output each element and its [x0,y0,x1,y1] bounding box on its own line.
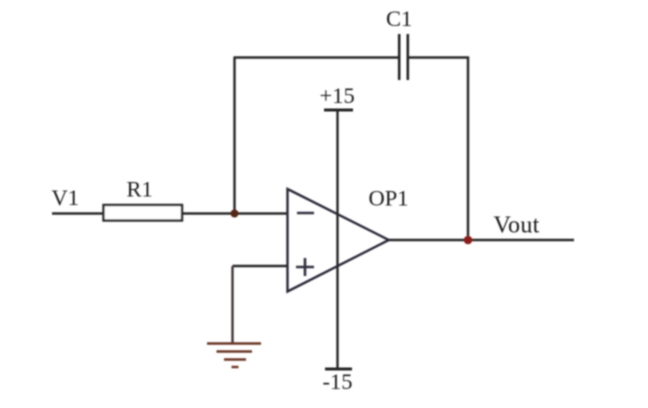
svg-text:Vout: Vout [494,213,540,239]
-15 supply bar [325,368,352,371]
junction node at inverting input [231,210,239,218]
wire feedback vertical right down to output node [467,57,469,241]
op-amp plus sign [296,258,314,276]
ground [207,344,261,368]
op-amp minus sign [297,212,314,215]
junction node at output [464,236,473,245]
wire feedback top to capacitor left plate [234,56,399,58]
+15 supply bar [324,109,353,112]
wire non-inverting input horizontal [233,265,289,267]
svg-text:C1: C1 [386,6,412,31]
power rail vertical through op-amp (+15 to -15) [336,110,338,369]
wire capacitor right plate to right vertical [409,56,469,58]
wire resistor to op-amp inverting input [182,212,288,214]
svg-text:+15: +15 [320,83,355,108]
op-amp U1 triangle [288,189,389,292]
svg-text:OP1: OP1 [369,186,409,211]
wire non-inverting input vertical down to ground [231,266,233,344]
svg-text:V1: V1 [52,185,80,210]
wire feedback vertical left [233,58,235,214]
svg-text:R1: R1 [127,177,153,202]
capacitor C1 [399,34,408,80]
resistor R1 [104,205,183,221]
wire input from V1 to resistor R1 [52,212,104,214]
svg-text:-15: -15 [323,369,353,394]
wire output from op-amp [389,239,574,241]
